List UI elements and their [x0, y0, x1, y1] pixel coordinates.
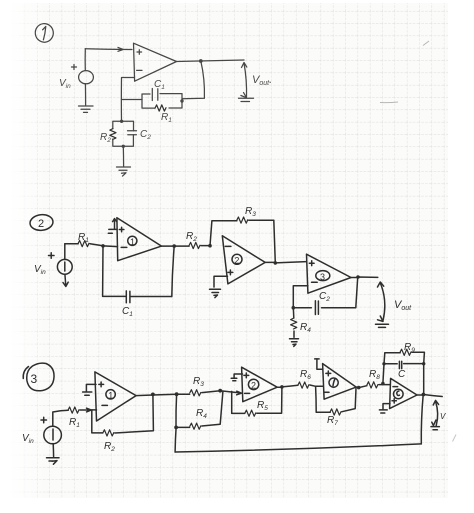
svg-text:2: 2: [38, 218, 44, 230]
svg-text:3: 3: [320, 272, 325, 282]
svg-text:2: 2: [251, 380, 256, 390]
svg-text:2: 2: [234, 255, 239, 265]
svg-text:C: C: [398, 369, 406, 380]
svg-text:1: 1: [108, 390, 113, 400]
svg-text:1: 1: [130, 237, 135, 247]
svg-text:3: 3: [31, 372, 38, 386]
svg-text:V: V: [440, 412, 446, 421]
